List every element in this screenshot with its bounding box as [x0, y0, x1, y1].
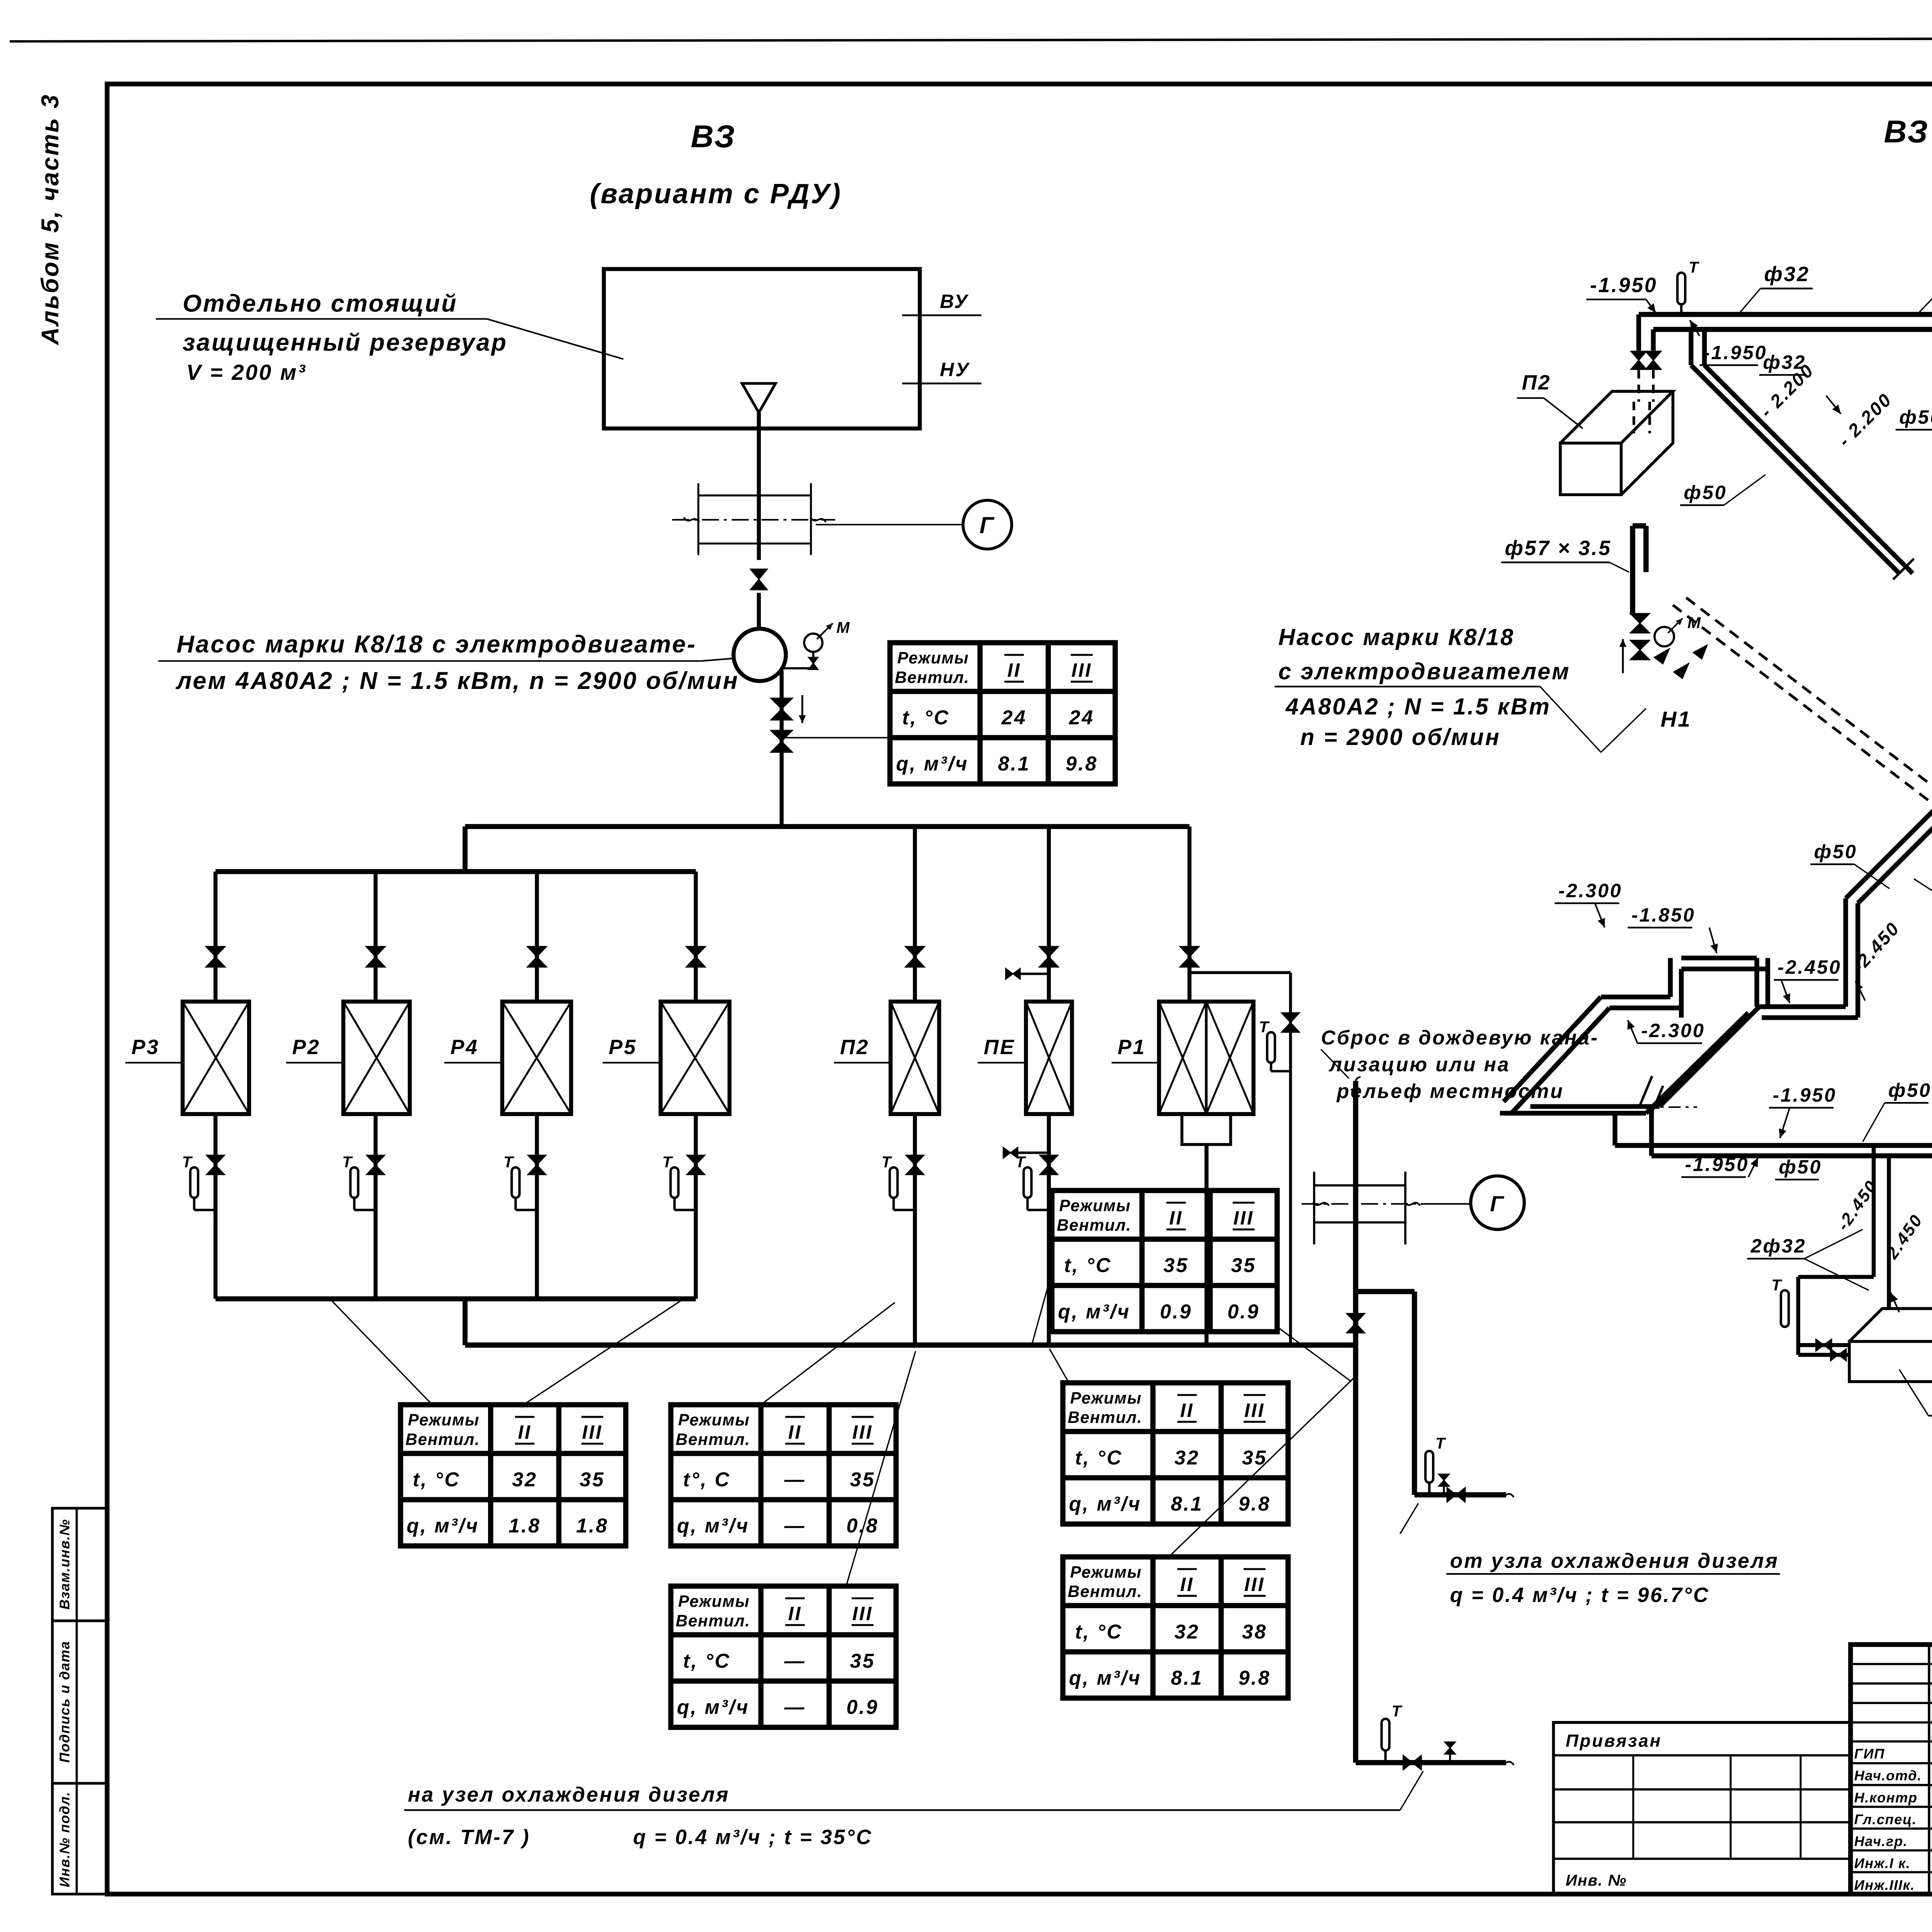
svg-text:Отдельно стоящий: Отдельно стоящий: [183, 290, 458, 317]
svg-text:III: III: [852, 1602, 873, 1624]
svg-text:8.1: 8.1: [1171, 1667, 1203, 1689]
svg-text:защищенный резервуар: защищенный резервуар: [183, 329, 508, 356]
svg-text:(см. ТМ-7 ): (см. ТМ-7 ): [408, 1826, 531, 1849]
svg-text:9.8: 9.8: [1066, 753, 1098, 775]
svg-text:9.8: 9.8: [1238, 1493, 1271, 1515]
svg-text:ф50: ф50: [1899, 406, 1932, 428]
svg-text:9.8: 9.8: [1238, 1667, 1271, 1689]
svg-text:II: II: [1007, 659, 1021, 681]
svg-text:-2.300: -2.300: [1558, 879, 1622, 901]
svg-text:24: 24: [1069, 706, 1094, 729]
svg-text:от узла охлаждения дизеля: от узла охлаждения дизеля: [1450, 1550, 1779, 1573]
svg-text:II: II: [1169, 1207, 1183, 1229]
svg-text:t, °C: t, °C: [683, 1650, 731, 1672]
svg-text:Инв.№ подл.: Инв.№ подл.: [57, 1791, 73, 1887]
svg-text:Г: Г: [1490, 1192, 1505, 1216]
svg-text:ф50: ф50: [1684, 481, 1727, 503]
svg-text:II: II: [788, 1421, 802, 1443]
svg-text:t, °C: t, °C: [902, 706, 950, 729]
svg-text:35: 35: [1163, 1254, 1189, 1277]
svg-text:Подпись и дата: Подпись и дата: [57, 1641, 73, 1763]
svg-text:Насос марки К8/18: Насос марки К8/18: [1278, 624, 1515, 650]
svg-text:III: III: [1244, 1573, 1265, 1595]
svg-text:32: 32: [1174, 1447, 1199, 1469]
svg-text:Р3: Р3: [131, 1036, 160, 1059]
svg-text:-1.950: -1.950: [1685, 1153, 1749, 1175]
svg-text:-1.850: -1.850: [1631, 904, 1696, 926]
svg-text:лизацию или на: лизацию или на: [1328, 1053, 1510, 1076]
svg-text:24: 24: [1001, 706, 1027, 729]
svg-text:ф50: ф50: [1779, 1156, 1822, 1178]
svg-text:-2.300: -2.300: [1641, 1019, 1705, 1041]
svg-text:Режимы: Режимы: [678, 1411, 750, 1429]
svg-text:Т: Т: [1771, 1276, 1782, 1294]
svg-text:Вентил.: Вентил.: [1068, 1582, 1142, 1601]
svg-text:Г: Г: [980, 512, 995, 538]
svg-text:32: 32: [512, 1469, 537, 1491]
svg-text:Насос марки К8/18 с электр: Насос марки К8/18 с электродвигате-: [177, 631, 697, 658]
svg-text:q, м³/ч: q, м³/ч: [1058, 1301, 1131, 1323]
svg-text:Т: Т: [182, 1153, 193, 1171]
svg-text:Н.контр: Н.контр: [1854, 1789, 1918, 1805]
svg-text:q, м³/ч: q, м³/ч: [1069, 1667, 1141, 1689]
svg-text:Режимы: Режимы: [1059, 1197, 1131, 1215]
svg-text:35: 35: [580, 1469, 605, 1491]
svg-text:М: М: [837, 619, 850, 636]
svg-text:q, м³/ч: q, м³/ч: [677, 1696, 750, 1719]
svg-text:q, м³/ч: q, м³/ч: [1069, 1493, 1141, 1515]
svg-text:НУ: НУ: [940, 358, 970, 380]
svg-text:q = 0.4 м³/ч ; t = 35°С: q = 0.4 м³/ч ; t = 35°С: [633, 1826, 872, 1849]
svg-text:III: III: [1244, 1399, 1265, 1421]
svg-text:t, °C: t, °C: [1075, 1447, 1122, 1469]
svg-text:ВУ: ВУ: [940, 290, 969, 312]
svg-text:32: 32: [1174, 1621, 1199, 1643]
svg-text:0.8: 0.8: [847, 1515, 879, 1537]
svg-text:—: —: [784, 1469, 806, 1491]
svg-text:—: —: [784, 1515, 806, 1537]
svg-text:-1.950: -1.950: [1773, 1084, 1837, 1106]
svg-text:Вентил.: Вентил.: [405, 1430, 480, 1449]
svg-text:II: II: [1180, 1399, 1194, 1421]
svg-text:III: III: [1071, 659, 1092, 681]
svg-text:Режимы: Режимы: [408, 1411, 480, 1429]
svg-text:-2.450: -2.450: [1777, 956, 1842, 978]
svg-text:ф50: ф50: [1814, 840, 1857, 862]
svg-text:—: —: [784, 1696, 806, 1719]
svg-text:-1.950: -1.950: [1590, 274, 1658, 297]
svg-text:0.9: 0.9: [847, 1696, 879, 1719]
svg-text:Вентил.: Вентил.: [895, 668, 969, 687]
svg-text:Нач.отд.: Нач.отд.: [1854, 1768, 1922, 1784]
svg-text:Т: Т: [1435, 1434, 1446, 1452]
svg-text:П2: П2: [1522, 371, 1551, 394]
svg-text:2ф32: 2ф32: [1750, 1235, 1806, 1257]
svg-text:35: 35: [1242, 1447, 1267, 1469]
svg-text:Т: Т: [662, 1153, 673, 1171]
svg-text:П2: П2: [840, 1036, 869, 1059]
svg-text:8.1: 8.1: [1171, 1493, 1203, 1515]
svg-text:Взам.инв.№: Взам.инв.№: [57, 1519, 73, 1610]
svg-text:1.8: 1.8: [509, 1515, 541, 1537]
svg-text:Инв. №: Инв. №: [1566, 1871, 1627, 1889]
svg-text:Т: Т: [503, 1153, 514, 1171]
svg-text:Н1: Н1: [1661, 707, 1692, 732]
svg-text:—: —: [784, 1650, 806, 1672]
svg-text:0.9: 0.9: [1228, 1301, 1260, 1323]
svg-text:III: III: [582, 1421, 602, 1443]
svg-text:(вариант с РДУ): (вариант с РДУ): [590, 178, 842, 209]
svg-text:ГИП: ГИП: [1854, 1746, 1885, 1762]
svg-text:лем 4А80А2 ; N = 1.5 кВт, n: лем 4А80А2 ; N = 1.5 кВт, n = 2900 об/ми…: [175, 667, 739, 694]
svg-text:Вентил.: Вентил.: [1068, 1408, 1142, 1427]
svg-text:35: 35: [1231, 1254, 1256, 1277]
svg-text:t, °C: t, °C: [413, 1469, 460, 1491]
svg-text:8.1: 8.1: [998, 753, 1031, 775]
svg-text:ф57 × 3.5: ф57 × 3.5: [1505, 537, 1611, 560]
svg-text:q, м³/ч: q, м³/ч: [406, 1515, 479, 1537]
svg-text:Режимы: Режимы: [1070, 1563, 1142, 1582]
svg-text:Гл.спец.: Гл.спец.: [1854, 1811, 1917, 1827]
svg-text:n = 2900 об/мин: n = 2900 об/мин: [1300, 724, 1501, 750]
svg-text:-1.950: -1.950: [1703, 341, 1767, 363]
svg-text:II: II: [1180, 1573, 1194, 1595]
svg-text:III: III: [852, 1421, 873, 1443]
svg-text:Инж.I к.: Инж.I к.: [1854, 1855, 1911, 1871]
svg-text:35: 35: [850, 1650, 875, 1672]
svg-text:Т: Т: [881, 1153, 892, 1171]
svg-text:Режимы: Режимы: [678, 1592, 750, 1611]
svg-text:Т: Т: [1391, 1702, 1402, 1720]
svg-text:Вентил.: Вентил.: [676, 1612, 750, 1630]
svg-text:q = 0.4 м³/ч ; t = 96.7°С: q = 0.4 м³/ч ; t = 96.7°С: [1450, 1584, 1710, 1607]
svg-text:Вентил.: Вентил.: [676, 1430, 750, 1449]
svg-text:с электродвигателем: с электродвигателем: [1278, 658, 1570, 684]
svg-text:38: 38: [1242, 1621, 1267, 1643]
svg-text:Р1: Р1: [1117, 1036, 1146, 1059]
svg-text:Режимы: Режимы: [1070, 1389, 1142, 1407]
svg-text:35: 35: [850, 1469, 875, 1491]
svg-text:Т: Т: [1259, 1018, 1270, 1036]
svg-text:Нач.гр.: Нач.гр.: [1854, 1833, 1908, 1849]
svg-text:Р5: Р5: [609, 1036, 637, 1059]
svg-text:ПЕ: ПЕ: [984, 1036, 1015, 1059]
svg-text:Альбом 5, часть 3: Альбом 5, часть 3: [37, 94, 64, 346]
svg-text:Р2: Р2: [292, 1036, 320, 1059]
svg-text:ф50: ф50: [1888, 1079, 1932, 1101]
svg-text:на узел охлаждения дизеля: на узел охлаждения дизеля: [408, 1783, 730, 1806]
svg-text:III: III: [1233, 1207, 1254, 1229]
svg-text:ВЗ: ВЗ: [691, 119, 736, 154]
svg-text:ВЗ: ВЗ: [1884, 114, 1929, 150]
svg-text:II: II: [518, 1421, 532, 1443]
svg-text:Режимы: Режимы: [897, 649, 969, 667]
svg-text:4А80А2 ; N = 1.5 кВт: 4А80А2 ; N = 1.5 кВт: [1285, 694, 1551, 719]
svg-text:Т: Т: [1689, 259, 1699, 276]
svg-text:Вентил.: Вентил.: [1057, 1216, 1131, 1235]
svg-text:q, м³/ч: q, м³/ч: [896, 753, 969, 775]
svg-text:t, °C: t, °C: [1064, 1254, 1112, 1277]
svg-text:q, м³/ч: q, м³/ч: [677, 1515, 750, 1537]
svg-text:Т: Т: [342, 1153, 353, 1171]
svg-text:ф32: ф32: [1764, 263, 1810, 286]
svg-text:t, °C: t, °C: [1075, 1621, 1122, 1643]
svg-text:Р4: Р4: [451, 1036, 479, 1059]
svg-text:Привязан: Привязан: [1566, 1731, 1662, 1751]
svg-text:1.8: 1.8: [576, 1515, 609, 1537]
svg-text:II: II: [788, 1602, 802, 1624]
svg-text:t°, С: t°, С: [683, 1469, 731, 1491]
svg-text:V = 200 м³: V = 200 м³: [186, 361, 306, 385]
svg-text:0.9: 0.9: [1160, 1301, 1192, 1323]
svg-text:Инж.IIIк.: Инж.IIIк.: [1854, 1877, 1915, 1893]
